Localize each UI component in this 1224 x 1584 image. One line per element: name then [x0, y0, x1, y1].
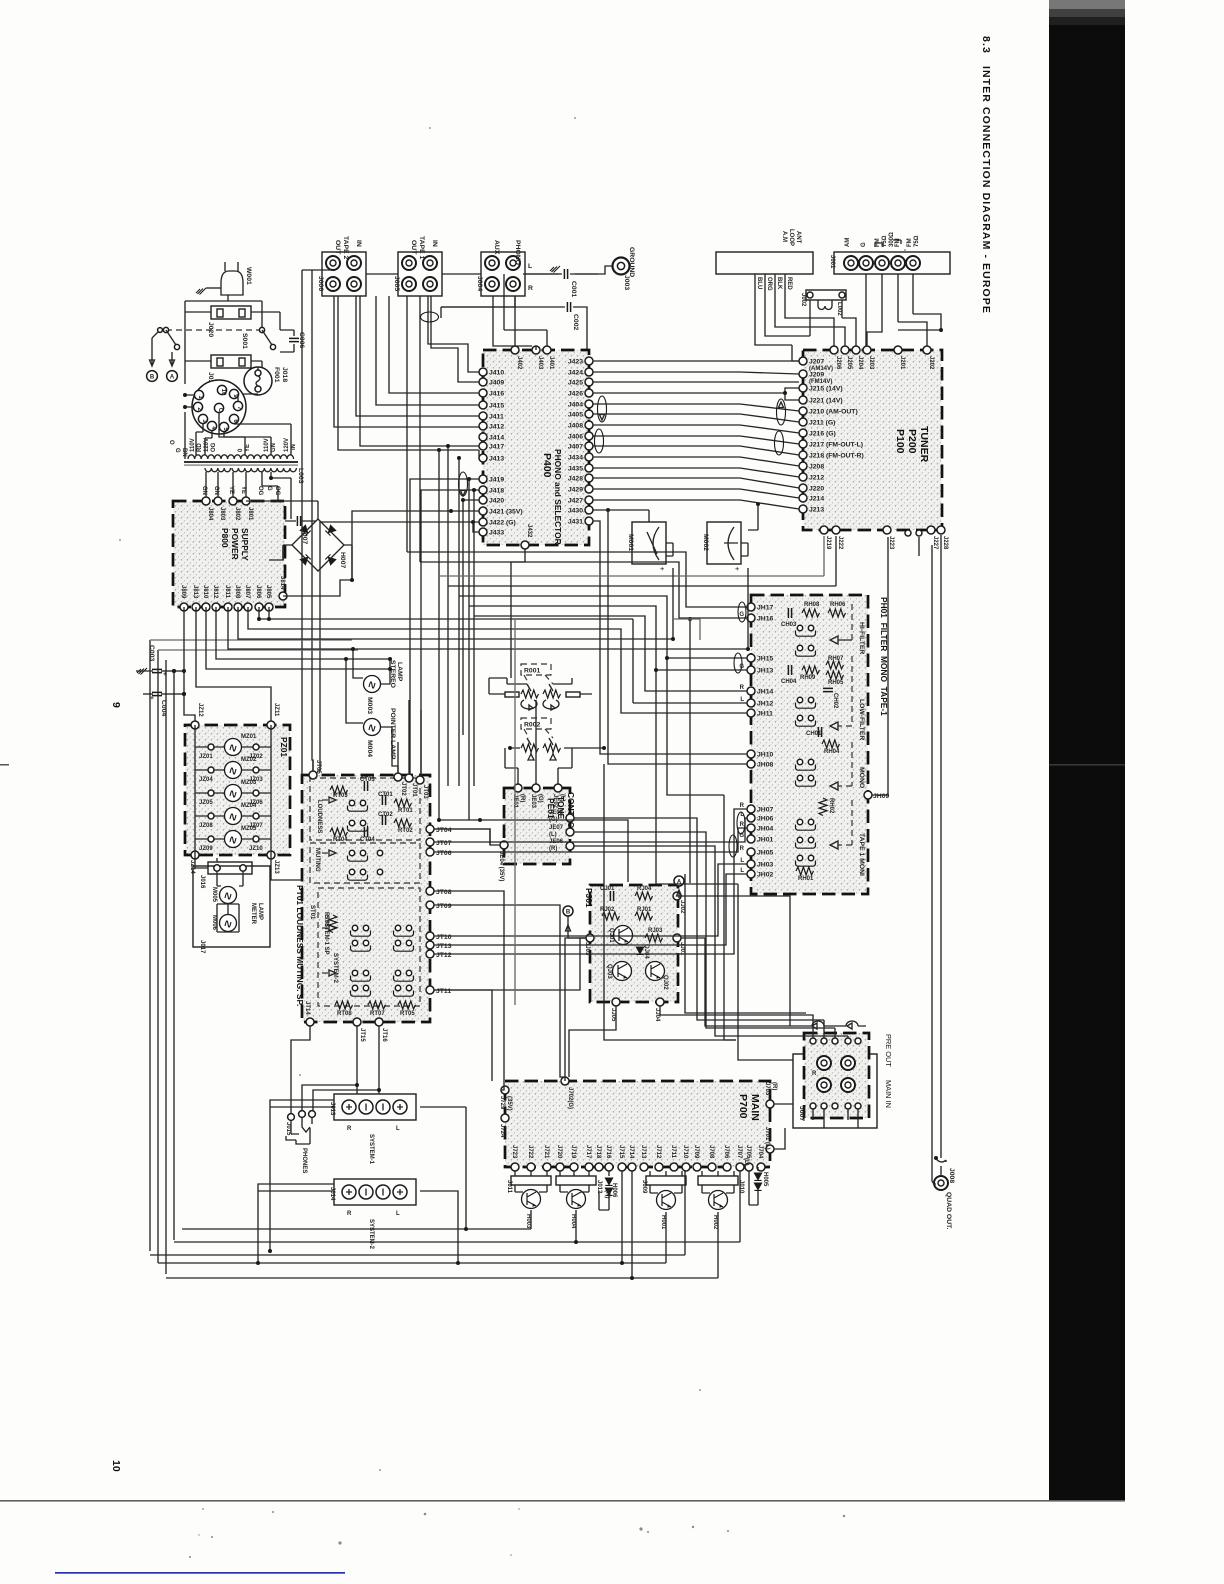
svg-text:JE07: JE07: [549, 825, 564, 831]
svg-text:SYSTEM-2: SYSTEM-2: [368, 1219, 374, 1250]
stereo lamp M003: [364, 676, 381, 693]
svg-text:J803: J803: [219, 507, 225, 521]
muting inner dashed box: [310, 843, 420, 883]
connector J009: [646, 1176, 686, 1185]
svg-text:J403: J403: [537, 356, 543, 370]
svg-text:J215 (14V): J215 (14V): [809, 386, 843, 393]
svg-text:B: B: [566, 910, 571, 916]
svg-text:J711: J711: [670, 1145, 676, 1159]
mono components CH01 RH04: [818, 727, 821, 737]
svg-text:RH08: RH08: [804, 602, 820, 608]
svg-text:M002: M002: [702, 534, 709, 551]
wires J007 bottom pins to outer box: [813, 1109, 858, 1128]
speaker terminal J014: [334, 1179, 416, 1205]
svg-text:PRE OUT: PRE OUT: [884, 1034, 893, 1067]
svg-text:J405: J405: [568, 412, 583, 419]
capacitor C002: [567, 302, 570, 312]
PE01 top pins JE01 JE03 JE02: [514, 784, 522, 792]
meter lamp box J016 J017: [193, 866, 270, 947]
svg-text:JZ11: JZ11: [273, 703, 279, 717]
jack group J004: [481, 252, 525, 296]
PT01 inner dashed loudness box: [310, 778, 420, 840]
svg-text:ST01: ST01: [309, 905, 315, 920]
svg-text:J724: J724: [499, 1124, 505, 1138]
svg-text:J406: J406: [568, 434, 583, 441]
svg-text:JZ05: JZ05: [199, 800, 213, 806]
svg-text:R001: R001: [524, 668, 540, 675]
svg-text:10: 10: [220, 389, 226, 396]
svg-text:J214: J214: [809, 496, 824, 503]
svg-text:(R): (R): [549, 846, 557, 852]
P700 MAIN block: [505, 1081, 770, 1167]
svg-text:J419: J419: [489, 477, 504, 484]
svg-text:JT02: JT02: [400, 782, 406, 796]
svg-text:CT03: CT03: [360, 777, 375, 783]
svg-text:MZ01: MZ01: [241, 734, 257, 740]
wires selector to transformer taps: [234, 424, 291, 455]
svg-text:JH02: JH02: [757, 872, 773, 879]
svg-text:J729: J729: [499, 1096, 505, 1110]
svg-text:H004: H004: [570, 1214, 576, 1229]
svg-text:C002: C002: [572, 314, 579, 330]
svg-text:RD: RD: [197, 443, 203, 452]
wire J215 J221 tie to J426: [593, 388, 799, 400]
svg-text:(L): (L): [559, 794, 565, 802]
svg-text:J808: J808: [234, 585, 240, 599]
svg-text:M006: M006: [211, 915, 217, 931]
svg-text:J802: J802: [234, 507, 240, 521]
fuse J019: [211, 355, 251, 368]
svg-text:+: +: [660, 564, 664, 573]
wire jack inter-group bus: [366, 273, 598, 275]
svg-text:MZ04: MZ04: [241, 803, 257, 809]
hi-filter components RH08 RH06 CH03: [788, 608, 791, 618]
svg-text:J216 (G): J216 (G): [809, 431, 836, 438]
svg-text:JZ01: JZ01: [199, 754, 213, 760]
svg-text:JH12: JH12: [757, 701, 773, 708]
ground jack J003: [613, 258, 630, 275]
svg-text:RH06: RH06: [830, 602, 846, 608]
svg-text:J712: J712: [655, 1145, 661, 1159]
low-filter dashed boundary with arrow: [838, 656, 852, 726]
tape moni components RH02 RH01: [819, 798, 827, 816]
svg-text:R: R: [812, 1071, 817, 1077]
svg-text:SUPPLY: SUPPLY: [240, 528, 250, 561]
svg-text:MZ05: MZ05: [241, 826, 257, 832]
svg-text:J002: J002: [800, 293, 806, 307]
svg-text:J423: J423: [568, 359, 583, 366]
tuner to P400 interconnect wires: [593, 360, 799, 362]
svg-text:CT01: CT01: [378, 792, 393, 798]
P800 POWER SUPPLY block: [173, 501, 285, 607]
svg-text:OUT: OUT: [410, 240, 417, 255]
terminal A: [167, 371, 178, 382]
svg-text:J813: J813: [192, 585, 198, 599]
page split line: [0, 1500, 1125, 1502]
shield ovals JH pins: [737, 812, 745, 834]
svg-text:J809: J809: [180, 585, 186, 599]
svg-text:H003: H003: [525, 1214, 531, 1229]
svg-text:R: R: [740, 685, 745, 691]
svg-text:J410: J410: [489, 370, 504, 377]
svg-text:RT01: RT01: [398, 808, 413, 814]
selector arrows: [322, 799, 330, 801]
svg-text:J018: J018: [281, 367, 288, 382]
phones jack J015: [288, 1114, 295, 1121]
transistor QJ02: [646, 962, 665, 981]
svg-text:J227: J227: [932, 536, 938, 550]
mid band vertical extensions: [667, 658, 724, 795]
svg-text:J218 (FM-OUT-R): J218 (FM-OUT-R): [809, 453, 864, 460]
R001 wiring: [489, 678, 592, 694]
svg-text:CONTROL: CONTROL: [566, 792, 576, 833]
P400 bottom pin J432: [521, 541, 529, 549]
svg-text:JH03: JH03: [757, 862, 773, 869]
svg-text:J210 (AM-OUT): J210 (AM-OUT): [809, 409, 858, 416]
trunk feeder columns: [438, 450, 440, 820]
svg-text:YE: YE: [240, 486, 246, 494]
svg-text:J716: J716: [605, 1145, 611, 1159]
wire J814 to 35V node: [283, 580, 352, 596]
svg-text:JZ12: JZ12: [197, 703, 203, 717]
svg-text:R: R: [347, 1211, 352, 1217]
svg-text:J004: J004: [476, 276, 483, 291]
svg-text:J001: J001: [829, 255, 835, 269]
transformer secondary coils: [205, 468, 231, 472]
svg-text:JH07: JH07: [757, 807, 773, 814]
svg-text:OG: OG: [211, 442, 217, 452]
svg-text:PJ01: PJ01: [584, 888, 594, 908]
svg-text:MAIN IN: MAIN IN: [884, 1080, 893, 1108]
svg-text:J717: J717: [585, 1145, 591, 1159]
svg-text:GN: GN: [271, 443, 277, 452]
J007 pin rows: [810, 1038, 816, 1044]
svg-text:R: R: [528, 285, 533, 292]
svg-text:75Ω: 75Ω: [914, 235, 920, 247]
svg-text:L: L: [396, 1211, 400, 1217]
staircase trunk wires to PH01: [407, 552, 747, 607]
capacitor CJ01: [610, 891, 613, 901]
svg-text:J402: J402: [516, 356, 522, 370]
svg-text:JH08: JH08: [757, 762, 773, 769]
svg-text:JT15: JT15: [359, 1028, 365, 1042]
transformer core: [184, 461, 298, 463]
svg-text:JT16: JT16: [381, 1028, 387, 1042]
svg-text:RH04: RH04: [824, 749, 840, 755]
svg-text:J710: J710: [682, 1145, 688, 1159]
dust specks: [424, 1513, 427, 1516]
svg-text:J424: J424: [568, 370, 583, 377]
svg-text:J433: J433: [489, 530, 504, 537]
svg-text:J723: J723: [511, 1145, 517, 1159]
svg-text:(R): (R): [519, 794, 525, 802]
shielded pair to AUX: [428, 296, 479, 372]
svg-text:110V: 110V: [190, 438, 196, 452]
svg-text:J430: J430: [568, 508, 583, 515]
svg-text:110V: 110V: [264, 438, 270, 452]
svg-text:P400: P400: [541, 453, 553, 478]
svg-text:BLK: BLK: [776, 277, 782, 290]
svg-text:J435: J435: [568, 466, 583, 473]
svg-text:J721: J721: [543, 1145, 549, 1159]
svg-text:J007: J007: [798, 1106, 805, 1121]
svg-text:J416: J416: [489, 391, 504, 398]
svg-text:RH05: RH05: [828, 680, 844, 686]
svg-text:J202: J202: [928, 356, 934, 370]
svg-text:CH01: CH01: [806, 731, 822, 737]
svg-text:J431: J431: [568, 519, 583, 526]
svg-text:RT06: RT06: [323, 912, 329, 927]
connector J012: [556, 1176, 596, 1185]
system switch dashed box: [318, 888, 420, 1006]
svg-text:PHONES: PHONES: [301, 1148, 307, 1173]
power switch S001: [166, 329, 262, 331]
svg-text:JZ13: JZ13: [273, 860, 279, 874]
svg-text:PHONO: PHONO: [514, 240, 521, 265]
svg-text:ORG: ORG: [766, 277, 772, 291]
svg-text:J814: J814: [279, 576, 285, 590]
J008 QUAD OUT jack: [934, 1176, 948, 1190]
wire JH09 riser to J223: [872, 537, 888, 795]
PE01 TONE CONTROL block: [504, 788, 570, 864]
svg-text:RT07: RT07: [370, 1011, 385, 1017]
speaker terminal J013: [334, 1094, 416, 1120]
svg-text:BN: BN: [181, 448, 187, 457]
PE01 right pins JE08 JE07 JE06: [566, 814, 574, 822]
svg-text:HI-FILTER: HI-FILTER: [858, 622, 865, 654]
capacitor CT01 resistor RT01: [382, 795, 385, 805]
tuner left pins: [799, 357, 807, 365]
svg-text:J011: J011: [506, 1180, 512, 1194]
svg-text:J426: J426: [568, 391, 583, 398]
svg-text:JZ10: JZ10: [249, 846, 263, 852]
P400 left pins: [479, 368, 487, 376]
svg-text:9: 9: [110, 702, 122, 708]
bridge rectifier H007: [292, 519, 344, 571]
svg-text:CH04: CH04: [781, 679, 797, 685]
capacitor C001: [523, 273, 562, 275]
wire plug to rails: [185, 295, 262, 330]
svg-text:JE04 (35V): JE04 (35V): [498, 851, 504, 881]
svg-text:J714: J714: [628, 1145, 634, 1159]
diodes H006: [608, 1171, 610, 1176]
P400 right pins: [585, 357, 593, 365]
svg-text:J207: J207: [809, 359, 824, 366]
svg-text:MUTING: MUTING: [314, 848, 320, 872]
svg-text:(G): (G): [537, 794, 543, 803]
tuner bottom pins: [820, 526, 828, 534]
svg-text:CH02: CH02: [832, 693, 838, 709]
wire H007 minus: [269, 545, 283, 560]
resistor RJ01: [635, 912, 653, 920]
svg-text:J204: J204: [857, 356, 863, 370]
svg-text:J702(G): J702(G): [567, 1087, 573, 1109]
svg-text:J432: J432: [526, 524, 532, 538]
long trunk to tuner bottom pins: [439, 536, 824, 576]
wire J422 ground to J433: [317, 522, 479, 771]
J008 wires: [931, 545, 933, 1181]
svg-text:JJ04: JJ04: [654, 1008, 660, 1022]
wire C004 junction: [176, 693, 184, 695]
svg-text:RJ02: RJ02: [600, 907, 615, 913]
wires P700 right to J007 block: [774, 1103, 793, 1105]
PZ01 block: [185, 725, 290, 855]
svg-text:J221 (14V): J221 (14V): [809, 398, 843, 405]
PH01 left pins: [747, 603, 755, 611]
svg-text:JH01: JH01: [757, 837, 773, 844]
svg-text:J220: J220: [809, 486, 824, 493]
svg-text:JT01: JT01: [411, 783, 417, 797]
resistor RJ02: [602, 912, 620, 920]
long verticals right of PJ01: [434, 829, 490, 845]
svg-text:TAPE 2: TAPE 2: [342, 236, 349, 260]
ground at plug: [196, 288, 206, 295]
wires jack columns down to P400 left pins: [338, 296, 479, 458]
meter M002: [707, 522, 741, 564]
tuner top pins: [830, 346, 838, 354]
svg-text:J418: J418: [489, 488, 504, 495]
svg-text:J407: J407: [568, 444, 583, 451]
svg-text:JT03: JT03: [422, 785, 428, 799]
wire 35V rail to PJ01: [439, 820, 628, 882]
svg-text:JH17: JH17: [757, 605, 773, 612]
svg-text:R: R: [740, 822, 745, 828]
wires PT01 top pins up: [312, 760, 314, 771]
svg-text:J707: J707: [736, 1145, 742, 1159]
svg-text:SYSTEM-1: SYSTEM-1: [368, 1134, 374, 1165]
PT01 right pins JT08 JT09 JT10 JT13 JT12 JT11: [426, 887, 434, 895]
svg-text:J804: J804: [207, 507, 213, 521]
black scan sidebar: [1049, 0, 1125, 1500]
svg-text:RJ03: RJ03: [648, 928, 663, 934]
svg-text:J201: J201: [899, 356, 905, 370]
svg-text:J705: J705: [745, 1145, 751, 1159]
svg-text:RT02: RT02: [398, 828, 413, 834]
svg-text:JT14: JT14: [304, 1001, 310, 1015]
svg-text:J411: J411: [489, 414, 504, 421]
svg-text:L003: L003: [297, 468, 304, 484]
wires PE01 right to J007: [574, 818, 824, 1038]
voltage selector plug: [192, 380, 246, 434]
hi-filter dashed boundary with arrow: [851, 600, 853, 640]
left long rails: [149, 640, 151, 1251]
svg-text:OG: OG: [274, 486, 280, 496]
J007 PRE OUT MAIN IN block: [804, 1033, 869, 1118]
svg-text:H002: H002: [712, 1215, 718, 1230]
svg-text:120V: 120V: [284, 438, 290, 452]
svg-text:H006: H006: [611, 1183, 617, 1198]
svg-text:IN: IN: [291, 444, 297, 450]
svg-text:J209: J209: [809, 372, 824, 379]
svg-text:JZ14: JZ14: [189, 860, 195, 874]
svg-text:IN: IN: [431, 240, 438, 247]
wires P800 bottom fan: [259, 607, 747, 703]
tape moni dashed boundary with arrow: [838, 800, 852, 845]
capacitor C007: [285, 520, 316, 522]
mono dashed boundary with arrow: [838, 742, 852, 786]
svg-text:G: G: [739, 612, 744, 618]
svg-text:CH03: CH03: [781, 622, 797, 628]
svg-text:R002: R002: [524, 722, 540, 729]
R001 wiper arcs: [521, 700, 559, 709]
svg-text:YE: YE: [245, 444, 251, 452]
svg-text:LAMP: LAMP: [257, 903, 263, 920]
svg-text:RJ04: RJ04: [637, 886, 652, 892]
wires lamps M003 M004: [381, 659, 390, 684]
svg-text:J412: J412: [489, 424, 504, 431]
PT01 LOUDNESS MUTING block: [302, 775, 430, 1022]
tuner stub pins: [918, 537, 920, 556]
wires selector pins: [185, 394, 258, 407]
svg-text:QUAD OUT.: QUAD OUT.: [945, 1192, 952, 1229]
svg-text:H001: H001: [660, 1215, 666, 1230]
svg-text:J006: J006: [317, 276, 324, 291]
svg-text:M004: M004: [366, 740, 373, 757]
svg-text:JZ04: JZ04: [199, 777, 213, 783]
svg-text:J812: J812: [212, 585, 218, 599]
PT01 top pins JT05 JT02 JT01 JT03: [309, 771, 317, 779]
capacitor C006: [280, 330, 294, 352]
transistor H002: [709, 1191, 728, 1210]
svg-text:RT03: RT03: [333, 793, 348, 799]
resistor RJ04: [635, 892, 653, 900]
svg-text:J427: J427: [568, 498, 583, 505]
svg-text:JT06: JT06: [436, 850, 452, 857]
svg-text:J720: J720: [556, 1145, 562, 1159]
jumper arcs: [812, 1021, 858, 1026]
resistor RJ03: [645, 934, 663, 942]
muting switches: [348, 850, 368, 861]
transistor H001: [657, 1191, 676, 1210]
svg-text:L: L: [528, 263, 532, 270]
svg-text:C003: C003: [148, 645, 155, 661]
svg-text:JT04: JT04: [436, 827, 452, 834]
svg-text:JT09: JT09: [436, 903, 452, 910]
svg-text:L002: L002: [836, 302, 842, 316]
svg-text:OUT: OUT: [334, 240, 341, 255]
svg-text:QJ04: QJ04: [643, 944, 649, 959]
svg-text:J422 (G): J422 (G): [489, 520, 516, 527]
J007 outer loop box: [793, 1054, 877, 1128]
connector J010: [698, 1176, 738, 1185]
svg-text:L: L: [740, 858, 744, 864]
wire J431 to JH10: [593, 521, 747, 754]
trunk extension right: [673, 619, 700, 640]
PH01 FILTER MONO TAPE-1 block: [751, 595, 868, 894]
P700 left pins J729 J724: [501, 1086, 509, 1094]
svg-text:J428: J428: [568, 476, 583, 483]
svg-text:J404: J404: [568, 402, 583, 409]
svg-text:M001: M001: [627, 534, 634, 551]
svg-text:J212: J212: [809, 475, 824, 482]
svg-text:S001: S001: [241, 333, 248, 349]
svg-text:JT07: JT07: [436, 840, 452, 847]
PT01 bottom pins JT14 JT15 JT16: [306, 1018, 314, 1026]
transistor QJ03: [613, 962, 632, 981]
svg-text:PT01 LOUDNESS MUTING. SP.: PT01 LOUDNESS MUTING. SP.: [295, 885, 305, 1006]
svg-text:J203: J203: [868, 356, 874, 370]
bottom trunk wires: [182, 1107, 531, 1229]
svg-text:CT04: CT04: [360, 837, 375, 843]
low-filter components CH04 RH09 RH07 RH05 CH02: [788, 665, 791, 675]
wires P400 left pins J419 J418 J420 down: [410, 479, 479, 775]
svg-text:JH15: JH15: [757, 656, 773, 663]
svg-text:J806: J806: [255, 585, 261, 599]
riser to J013: [270, 1100, 334, 1251]
transistor H004: [567, 1190, 586, 1209]
transistor QJ01: [614, 926, 633, 945]
svg-text:120V: 120V: [204, 438, 210, 452]
